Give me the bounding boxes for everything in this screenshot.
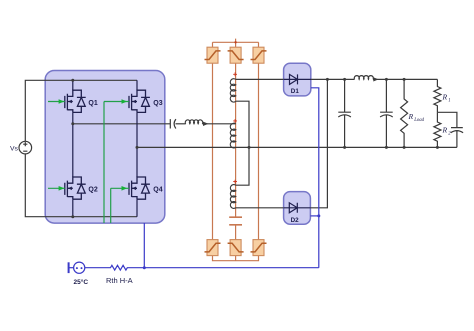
svg-text:R: R [442, 126, 448, 135]
saturable reluctance top-center [228, 47, 244, 63]
wire rail right [373, 78, 437, 80]
polarity mark winding 1 [233, 72, 237, 76]
MOSFET Q4 [129, 177, 150, 199]
resistor Rload [401, 79, 408, 147]
wire Vs plus to bridge top rail [25, 80, 137, 141]
thermal wire bridge [143, 223, 145, 268]
current arrow output inductor [373, 77, 378, 81]
svg-text:R: R [442, 93, 448, 102]
saturable reluctance bottom-right [251, 240, 267, 256]
resistor R1 [434, 79, 441, 112]
node R2 bottom [436, 146, 439, 149]
gate arrow Q3 [122, 99, 128, 104]
magnetic core top bar [213, 39, 259, 48]
inductor Lout [354, 76, 373, 80]
node C2 top [385, 78, 388, 81]
gate arrow Q2 [59, 186, 65, 191]
node C2 bottom [385, 146, 388, 149]
core junction dot [234, 41, 236, 43]
MOSFET Q1 [65, 90, 86, 112]
MOSFET Q2 [65, 177, 86, 199]
node thermal bridge junction [143, 266, 146, 269]
core leg right [258, 63, 260, 239]
svg-text:25°C: 25°C [74, 278, 89, 286]
saturable reluctance bottom-left [205, 240, 221, 256]
polarity mark winding 2 [233, 119, 237, 123]
wire gate Q1 [48, 101, 65, 103]
node rectifier output [326, 78, 329, 81]
diode D2 [284, 203, 311, 213]
node Rload top [403, 78, 406, 81]
thermal wire D1 [311, 88, 319, 268]
wire bridge right leg [136, 80, 138, 216]
svg-text:R: R [408, 112, 414, 121]
node bridge left midpoint [71, 122, 74, 125]
node center tap [248, 146, 251, 149]
node thermal D2 junction [317, 214, 320, 217]
wire R2 parallel cap branch [437, 112, 457, 127]
capacitor Cs plate 1 [169, 119, 171, 128]
core leg left [212, 63, 214, 239]
svg-text:D2: D2 [291, 217, 300, 224]
svg-text:Q2: Q2 [88, 187, 97, 194]
wire inductor to primary winding [202, 123, 235, 125]
gate arrow Q4 [122, 186, 128, 191]
core leg center [235, 63, 237, 239]
inductor Ls [185, 120, 202, 124]
svg-text:Rth H-A: Rth H-A [106, 276, 133, 285]
node Q2 source junction [71, 215, 74, 218]
diode D2 block [284, 192, 311, 225]
node C1 bottom [343, 146, 346, 149]
polarity mark winding 3 [233, 180, 237, 184]
wire gate Q3 [104, 101, 129, 103]
diode D1 block [284, 63, 311, 96]
svg-text:Q4: Q4 [153, 187, 162, 194]
node Rload bottom [403, 146, 406, 149]
winding secondary 1 [230, 79, 235, 102]
winding primary [230, 123, 235, 148]
H-bridge subsystem block [45, 71, 165, 224]
MOSFET Q3 [129, 90, 150, 112]
temperature source dots [76, 267, 78, 269]
wire gate Q2 [48, 187, 65, 189]
wire secondary2 to D2 [236, 207, 284, 209]
svg-text:D1: D1 [291, 88, 300, 95]
saturable reluctance top-right [251, 47, 267, 63]
wire gate Q4 [111, 187, 129, 189]
diode D1 [284, 74, 311, 84]
core air gap [229, 217, 242, 225]
wire D1 to output rail [311, 78, 355, 80]
node Q1 drain junction [71, 79, 74, 82]
core bottom bar [213, 256, 259, 261]
wire secondary1 to D1 [236, 78, 284, 80]
wire gate bus 2 [110, 188, 112, 223]
thermal bus bottom [85, 265, 319, 270]
temperature source terminal [68, 262, 70, 273]
current arrow out [374, 78, 378, 80]
svg-text:Q1: Q1 [88, 100, 97, 107]
svg-text:Load: Load [413, 118, 424, 123]
capacitor Cs plate 2 [174, 119, 176, 128]
svg-text:1: 1 [448, 99, 450, 104]
node bridge right midpoint [136, 146, 139, 149]
svg-text:Vs: Vs [10, 145, 19, 152]
capacitor C3 [451, 128, 463, 148]
wire bridge left output [73, 123, 171, 125]
wire terminal to source [69, 267, 74, 269]
wire Vs minus to bridge bottom rail [25, 154, 137, 217]
capacitor C1 [338, 79, 351, 147]
voltage source Vs [19, 141, 32, 154]
temperature source 25C [74, 262, 85, 273]
wire bridge left leg [72, 80, 74, 216]
wire gate bus 1 [103, 102, 105, 224]
wire D2 output up [310, 79, 327, 207]
svg-text:Q3: Q3 [153, 100, 162, 107]
wire bridge right output / center-tap rail [137, 146, 457, 148]
winding secondary 2 [230, 185, 235, 209]
resistor R2 [434, 112, 441, 147]
saturable reluctance bottom-center [228, 240, 244, 256]
capacitor C2 [380, 79, 393, 147]
saturable reluctance top-left [205, 47, 221, 63]
current arrow [203, 122, 209, 126]
wire cap to inductor [176, 123, 186, 125]
gate arrow Q1 [59, 99, 65, 104]
node C1 top [343, 78, 346, 81]
thermal wire D2 [310, 215, 318, 217]
wire secondary crossover [236, 101, 249, 185]
